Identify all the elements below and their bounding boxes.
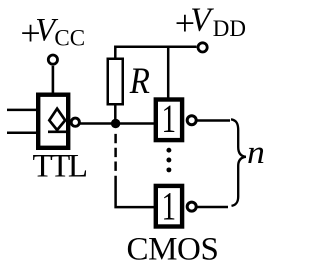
svg-text:CC: CC: [54, 26, 85, 51]
svg-text:n: n: [247, 136, 265, 171]
svg-text:R: R: [129, 60, 150, 101]
svg-text:CMOS: CMOS: [127, 232, 219, 268]
wire gate 1 output: [197, 119, 231, 122]
wire TTL output to gate1 input (through node): [79, 122, 156, 125]
TTL gate U1 box: [38, 95, 68, 148]
diamond underline: [48, 131, 67, 134]
TTL output bubble: [71, 118, 79, 126]
dashed wire from node: [114, 134, 117, 171]
resistor R body: [108, 59, 123, 105]
brace: [231, 119, 246, 206]
wire resistor bottom stem: [114, 106, 117, 124]
label +VDD: [175, 2, 246, 44]
terminal +VDD: [198, 43, 207, 52]
wire L to gate n input: [116, 176, 155, 207]
TTL input wire B: [7, 131, 37, 134]
node junction dot: [111, 119, 120, 128]
CMOS gate n box: [156, 186, 182, 227]
label +VCC: [20, 12, 85, 53]
wire VDD rail to gate1 top: [167, 47, 170, 100]
svg-text:V: V: [190, 2, 214, 39]
resistor R stems: [115, 47, 196, 58]
TTL input wire A: [7, 109, 37, 112]
svg-text:DD: DD: [213, 16, 246, 41]
wire VCC stem: [52, 66, 55, 95]
CMOS gate 1 box: [156, 100, 182, 141]
svg-text:TTL: TTL: [33, 149, 87, 185]
ellipsis dots: [166, 148, 171, 173]
terminal +VCC: [48, 55, 57, 64]
gate 1 output bubble: [187, 116, 196, 125]
open-collector diamond: [49, 109, 65, 130]
gate n output bubble: [187, 202, 196, 211]
svg-text:1: 1: [162, 184, 177, 229]
wire gate n output: [197, 206, 229, 209]
svg-text:1: 1: [162, 97, 177, 142]
